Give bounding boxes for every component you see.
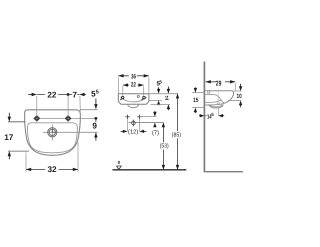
10 down arrow [240,84,242,87]
29 dimension [206,81,236,83]
tap hole slot (side) [207,91,209,95]
svg-text:0: 0 [118,160,121,165]
svg-text:9: 9 [92,121,97,130]
17 up arrow [8,151,11,156]
floor line (side view) [204,171,243,173]
extension line right hole [67,96,69,116]
drain horizontal line to (53) [129,122,164,124]
dimension line 22/7 (front top) [37,94,80,96]
36 dimension [118,75,148,77]
5.5 down arrow (top view) [158,87,160,89]
11 up arrow [167,104,170,109]
22 dimension (top view) [123,84,144,86]
5.5 up arrow (top view) [157,100,160,105]
svg-text:(53): (53) [160,143,169,150]
15 down arrow [194,86,196,89]
fixing cross right [137,115,141,119]
drain vertical crosshair [51,125,53,141]
arrow out right of 7 [79,93,84,96]
drain symbol (plan position) [132,121,136,125]
svg-text:36: 36 [131,73,136,80]
svg-text:10: 10 [237,93,243,100]
tap hole line reference (top view right) [149,99,162,101]
10 top boundary (rim extended) [234,90,242,92]
tap hole diamond right [65,116,70,121]
back edge reference line to (85) [149,93,178,95]
svg-text:22: 22 [131,82,136,89]
drain axis extension line (side) [217,108,219,116]
deck inner line + bowl curve (side) [205,94,225,103]
svg-text:29: 29 [216,80,222,87]
basin outer outline (front view) [25,110,81,156]
svg-text:(12): (12) [128,129,138,136]
drain reference horizontal line [43,131,97,133]
fixing hole extension lines [127,119,129,131]
extension line left hole [36,96,38,116]
17 bottom boundary line [8,150,29,152]
rim top line (side) [205,90,232,92]
17 top boundary line [8,121,25,123]
nose + underside profile [205,91,233,105]
11 bottom boundary line [151,103,171,105]
bowl bottom interior line (side) [205,100,222,103]
svg-text:5: 5 [211,112,214,117]
36 extension lines [117,77,119,93]
extension line 7 right [79,96,81,114]
svg-text:5: 5 [159,79,162,84]
svg-text:22: 22 [47,90,57,99]
basin inner rim (front view) [27,123,77,153]
bowl inner arc (top view) [121,97,147,102]
down arrow 5.5 [95,99,97,105]
fixing cross left [125,115,129,119]
drain boss outer [209,104,223,108]
top edge reference line (extends right) [80,109,97,111]
11 down arrow [167,87,169,90]
drain circles [48,128,57,137]
floor line (centre) [113,169,187,171]
(7) down arrow [154,111,156,113]
svg-text:(7): (7) [152,129,159,136]
(53) dimension line [162,123,164,170]
svg-text:(85): (85) [172,131,181,138]
32 extension line right [77,142,79,172]
svg-text:17: 17 [4,133,14,142]
32 dimension line [26,168,78,170]
basin outline (top view) [118,94,149,105]
tap hole right (top view) [142,96,146,100]
17 down arrow [8,113,10,117]
datum triangle [117,166,122,169]
drain boss inner [210,105,221,107]
dot 9 top [95,117,98,120]
svg-text:32: 32 [47,165,57,174]
svg-text:7: 7 [72,90,77,99]
tap hole diamond left [34,116,39,121]
tap hole left (top view) [120,96,124,100]
10 up arrow [239,101,242,106]
22 extension lines (top view) [122,86,124,96]
svg-text:5: 5 [96,90,99,96]
(7) up arrow [153,123,156,128]
overflow circle (top view) [137,96,139,98]
15 bottom boundary [192,107,204,109]
overflow detail (side) [216,103,218,105]
front bump (top view) [128,104,139,107]
svg-text:15: 15 [193,97,199,104]
15 up arrow [194,108,197,113]
(85) dimension line [177,94,179,170]
(7) top boundary line [139,116,156,118]
svg-text:11: 11 [165,95,169,102]
15 top boundary [192,92,204,94]
14.5 dimension [199,115,201,117]
32 extension line left [25,153,27,173]
dot between 22 and 7 [67,93,70,96]
(12) dimension [121,130,125,132]
drain axis centreline through bowl (side) [217,92,219,104]
arrow out left of 22 [28,94,32,96]
up arrow 9 bottom [94,132,97,137]
tap hole centre line (front view) [34,117,97,119]
10 bottom boundary [228,100,241,102]
wall line [203,62,205,172]
29 extension line right [234,83,236,90]
